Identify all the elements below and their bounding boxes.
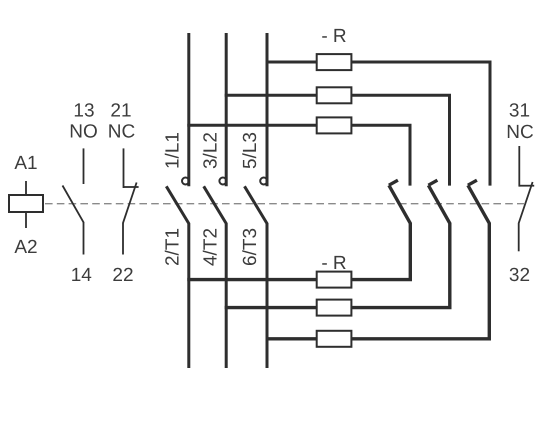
svg-text:31: 31 [509,101,530,122]
svg-text:NC: NC [108,122,135,143]
svg-text:- R: - R [321,253,346,274]
svg-text:4/T2: 4/T2 [200,228,221,266]
svg-text:14: 14 [71,265,93,286]
svg-text:6/T3: 6/T3 [240,228,261,266]
svg-text:- R: - R [321,26,346,47]
svg-text:NO: NO [69,122,98,143]
svg-text:13: 13 [73,101,94,122]
svg-text:A2: A2 [14,237,37,258]
svg-text:3/L2: 3/L2 [200,132,221,169]
svg-text:5/L3: 5/L3 [240,132,261,169]
svg-text:21: 21 [110,101,131,122]
svg-text:32: 32 [509,265,530,286]
svg-text:1/L1: 1/L1 [162,132,183,169]
svg-text:2/T1: 2/T1 [162,228,183,266]
svg-text:NC: NC [506,122,533,143]
svg-text:A1: A1 [14,153,37,174]
svg-text:22: 22 [112,265,133,286]
